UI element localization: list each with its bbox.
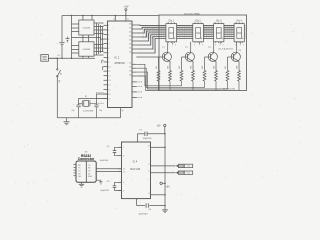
svg-text:8: 8 <box>223 44 224 46</box>
svg-text:Dis 4: Dis 4 <box>237 20 243 22</box>
svg-text:9: 9 <box>194 22 195 24</box>
svg-text:IC 1: IC 1 <box>114 55 120 59</box>
svg-text:+5V: +5V <box>124 5 129 9</box>
svg-text:Dis 3: Dis 3 <box>216 20 222 22</box>
svg-text:8: 8 <box>202 44 203 46</box>
svg-text:CD4543: CD4543 <box>83 28 91 30</box>
svg-text:10µF/16V: 10µF/16V <box>100 190 109 192</box>
svg-text:8: 8 <box>243 44 244 46</box>
svg-text:MAX 232: MAX 232 <box>130 168 141 171</box>
svg-text:Connector: Connector <box>78 157 95 161</box>
svg-text:8: 8 <box>220 44 221 46</box>
svg-text:10µF/16V: 10µF/16V <box>138 214 148 216</box>
svg-text:AT89C52: AT89C52 <box>114 62 125 65</box>
svg-text:+5V: +5V <box>166 186 171 189</box>
svg-text:8: 8 <box>194 44 195 46</box>
svg-text:8: 8 <box>172 44 173 46</box>
svg-text:10µ: 10µ <box>57 55 60 57</box>
svg-text:8: 8 <box>240 44 241 46</box>
svg-text:(T1-T4)=BC547: (T1-T4)=BC547 <box>218 48 233 50</box>
svg-text:10µF/16V: 10µF/16V <box>143 138 153 140</box>
svg-text:IC 4: IC 4 <box>133 160 138 164</box>
svg-text:11.0592 MHZ: 11.0592 MHZ <box>83 110 95 112</box>
svg-text:DIS-LED-TRIAD: DIS-LED-TRIAD <box>184 12 200 15</box>
svg-text:Dis 2: Dis 2 <box>195 20 201 22</box>
svg-text:9: 9 <box>235 22 236 24</box>
svg-text:GND: GND <box>88 176 93 178</box>
svg-text:8: 8 <box>235 44 236 46</box>
svg-text:10µF/16V: 10µF/16V <box>100 160 109 162</box>
svg-text:9: 9 <box>167 22 168 24</box>
svg-text:8: 8 <box>199 44 200 46</box>
svg-text:R1-R8=470Ω: R1-R8=470Ω <box>223 88 236 90</box>
svg-text:8: 8 <box>215 44 216 46</box>
svg-text:22p: 22p <box>99 110 102 112</box>
svg-text:Dis 1: Dis 1 <box>169 20 175 22</box>
svg-text:9: 9 <box>214 22 215 24</box>
svg-text:22p: 22p <box>72 110 75 112</box>
svg-text:+5V: +5V <box>156 126 161 128</box>
svg-text:8: 8 <box>175 44 176 46</box>
svg-text:X1: X1 <box>85 96 87 98</box>
svg-text:CD4543: CD4543 <box>83 49 91 51</box>
